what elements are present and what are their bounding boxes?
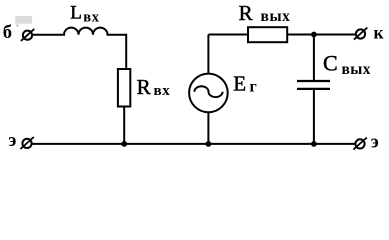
svg-text:б: б (3, 23, 12, 43)
svg-text:R: R (137, 75, 151, 99)
svg-text:э: э (8, 131, 16, 151)
svg-text:C: C (323, 51, 338, 76)
svg-text:вых: вых (342, 61, 371, 78)
svg-text:вых: вых (261, 8, 291, 25)
svg-text:э: э (371, 133, 379, 153)
svg-text:E: E (233, 72, 246, 96)
svg-text:R: R (239, 1, 253, 25)
svg-text:к: к (374, 23, 385, 43)
svg-text:вх: вх (83, 9, 99, 25)
svg-text:вх: вх (154, 83, 171, 99)
svg-text:г: г (250, 79, 257, 96)
svg-text:L: L (70, 3, 82, 24)
